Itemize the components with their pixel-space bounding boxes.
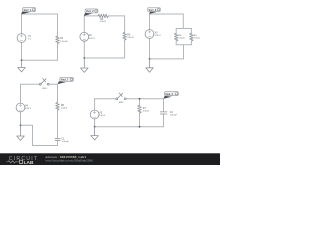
parallel left stub C3 (175, 29, 177, 45)
junction C3 (149, 58, 151, 60)
parallel box bottom C3 (176, 44, 191, 46)
junction C5 top (139, 98, 141, 100)
svg-text:Vsrc_2: Vsrc_2 (86, 11, 94, 13)
wire right C5 (163, 99, 165, 127)
svg-text:5.00 V: 5.00 V (89, 38, 96, 40)
resistor R7 (138, 105, 150, 113)
switch SW2 (116, 93, 126, 104)
node tag 5 (164, 92, 179, 99)
voltage source V1 (17, 34, 32, 43)
svg-text:2.00 Ω: 2.00 Ω (127, 37, 134, 39)
ground C4 (17, 125, 25, 140)
svg-text:SW1: SW1 (42, 88, 48, 90)
svg-text:1.00 µF: 1.00 µF (62, 141, 70, 143)
wire top-right C2 (109, 15, 125, 17)
svg-text:4.00 Ω: 4.00 Ω (143, 110, 150, 112)
svg-text:Vout_1: Vout_1 (61, 79, 69, 82)
resistor R1 (56, 36, 68, 44)
wire R7 branch C5 (139, 99, 141, 127)
svg-text:5.00 V: 5.00 V (155, 35, 162, 37)
ground C2 (81, 58, 89, 72)
wire top-left C5 (95, 98, 117, 100)
voltage source V4 (16, 103, 32, 112)
wire top C1 (22, 13, 58, 15)
wire left C5 (94, 99, 96, 127)
wire return C4 (21, 125, 33, 145)
node tag 3 (148, 8, 161, 14)
svg-text:2.00 Ω: 2.00 Ω (100, 21, 107, 23)
svg-text:SW2: SW2 (119, 102, 125, 104)
wire left C3 (149, 14, 151, 59)
junction C5 bottom (139, 126, 141, 128)
junction C1 (21, 59, 23, 61)
parallel right stub C3 (190, 29, 192, 45)
wire bottom C4 (33, 145, 58, 147)
junction C4 (20, 124, 22, 126)
node tag 1 (21, 8, 35, 15)
wire right C2 (124, 16, 126, 58)
wire bottom C1 (22, 59, 58, 61)
parallel box top C3 (176, 28, 191, 30)
wire left C4 (20, 84, 22, 125)
wire top-right C5 (125, 98, 163, 100)
wire left C1 (21, 14, 23, 60)
wire top-right C4 (48, 83, 57, 85)
resistor R2 (98, 14, 109, 23)
wire top-left C2 (84, 15, 98, 17)
voltage source V2 (80, 32, 96, 41)
wire bottom C3 (150, 58, 184, 60)
ground C1 (18, 60, 26, 72)
svg-text:1.00 Ω: 1.00 Ω (179, 37, 185, 39)
resistor R6 (56, 102, 68, 110)
svg-text:Vout_2: Vout_2 (165, 93, 173, 96)
svg-text:http://circuitlab.com/c/38a56a: http://circuitlab.com/c/38a56ab2596 (46, 158, 94, 162)
resistor R5 (190, 33, 201, 41)
wire bottom C2 (84, 57, 124, 59)
wire drop C3 (182, 14, 184, 29)
wire right C4 (57, 84, 59, 145)
ground C3 (146, 59, 154, 72)
switch SW1 (39, 78, 49, 90)
svg-text:Vsrc_1: Vsrc_1 (24, 10, 32, 12)
capacitor C2 (160, 112, 177, 117)
svg-text:Vsrc_3: Vsrc_3 (149, 10, 157, 12)
junction C5 left (94, 126, 96, 128)
resistor R3 (123, 32, 134, 40)
resistor R4 (174, 33, 185, 41)
wire bottom C5 (95, 126, 164, 128)
ground C5 (91, 127, 99, 140)
wire top C3 (150, 13, 184, 15)
svg-text:1.00 µF: 1.00 µF (170, 114, 178, 116)
svg-text:1.00 Ω: 1.00 Ω (194, 37, 200, 39)
wire left C2 (83, 16, 85, 58)
svg-text:5.00 V: 5.00 V (25, 108, 32, 110)
svg-text:1.00 kΩ: 1.00 kΩ (60, 41, 68, 43)
voltage source V3 (145, 30, 161, 39)
wire right C1 (57, 14, 59, 60)
wire top-left C4 (21, 83, 41, 85)
svg-text:LAB: LAB (24, 160, 34, 165)
voltage source V5 (90, 110, 106, 119)
wire box exit C3 (183, 45, 185, 59)
capacitor C1 (55, 138, 69, 143)
junction C2 (83, 57, 85, 59)
svg-text:5.00 V: 5.00 V (99, 115, 106, 117)
svg-text:4.00 Ω: 4.00 Ω (61, 107, 68, 109)
node tag 4 (58, 77, 74, 84)
node tag 2 (84, 9, 98, 16)
